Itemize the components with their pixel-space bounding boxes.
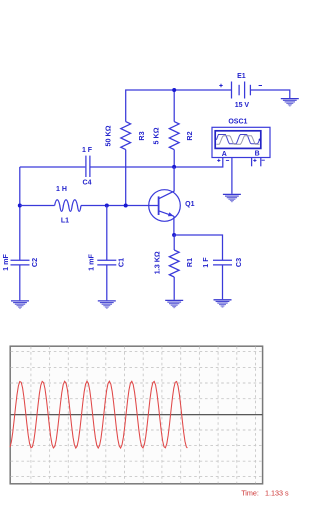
OSC minus sign B (262, 159, 265, 161)
svg-text:1 F: 1 F (201, 257, 210, 268)
graph x axis (11, 414, 263, 416)
svg-text:Q1: Q1 (185, 201, 194, 208)
wire: R2 top lead (173, 90, 175, 122)
svg-text:C3: C3 (234, 258, 243, 267)
svg-text:OSC1: OSC1 (228, 118, 247, 125)
ground (C2) (11, 301, 29, 308)
battery minus sign (259, 85, 262, 87)
OSC1 screen endpoint dot (259, 139, 261, 141)
svg-text:E1: E1 (237, 73, 246, 80)
svg-text:50 KΩ: 50 KΩ (104, 125, 113, 146)
OSC plus sign B (253, 159, 256, 162)
ground (C1) (98, 301, 116, 308)
wire: OSC A- to ground (231, 158, 233, 194)
svg-text:B: B (255, 151, 260, 158)
wire: C3 to ground (222, 265, 224, 299)
svg-text:1 H: 1 H (56, 186, 67, 193)
wire: left rail (19, 167, 21, 260)
wire: C1 branch (106, 206, 108, 261)
junction dot (top rail / R2) (172, 88, 176, 92)
ground (battery) (281, 99, 299, 106)
wire: top rail from R3 top to battery + (126, 90, 232, 122)
inductor L1 (55, 200, 81, 212)
wire: R3 bottom lead crossing to base (125, 150, 127, 206)
wire: C2 to ground (19, 265, 21, 300)
svg-text:1.133 s: 1.133 s (265, 488, 289, 497)
svg-text:15 V: 15 V (235, 102, 250, 109)
svg-text:1 mF: 1 mF (1, 254, 10, 271)
OSC terminal stub B+ (251, 158, 253, 167)
svg-text:C4: C4 (83, 179, 92, 186)
wire: base wire left of L1 (20, 205, 55, 207)
oscilloscope OSC1 (212, 127, 270, 157)
ground (OSC1) (223, 194, 241, 201)
graph panel border (10, 346, 262, 484)
capacitor C4 (86, 156, 90, 177)
wire: base wire right of L1 (81, 205, 158, 207)
svg-text:1.3 KΩ: 1.3 KΩ (153, 251, 162, 274)
waveform trace (red sine) (10, 381, 187, 448)
wire: emitter node to C3 (174, 235, 222, 260)
ground (R1) (165, 300, 183, 307)
wire: mid net left segment (to C4) (20, 166, 86, 168)
svg-text:5 KΩ: 5 KΩ (152, 127, 161, 144)
resistor R3 (121, 122, 131, 150)
resistor R2 (169, 122, 179, 150)
capacitor C2 (11, 260, 30, 265)
OSC minus sign A (226, 159, 229, 161)
wire: collector (173, 167, 175, 192)
wire: emitter (173, 216, 175, 235)
junction dot (C1 tap) (105, 204, 109, 208)
battery E1 (232, 82, 251, 99)
OSC terminal stub B- (260, 158, 262, 167)
OSC plus sign A (217, 159, 220, 162)
battery plus sign (219, 84, 222, 87)
junction dot (collector node) (172, 165, 176, 169)
wire: R2 bottom lead to collector node (173, 150, 175, 167)
svg-text:R2: R2 (185, 131, 194, 140)
svg-text:A: A (222, 151, 227, 158)
svg-text:L1: L1 (61, 217, 69, 224)
svg-text:R3: R3 (137, 131, 146, 140)
OSC1 screen trace A (blue) (216, 135, 259, 144)
ground (C3) (214, 300, 232, 307)
graph vertical grid (31, 347, 256, 484)
wire: battery - to ground (250, 90, 289, 98)
svg-text:R1: R1 (185, 258, 194, 267)
OSC1 screen trace B (gray) (216, 136, 259, 144)
graph horizontal grid (11, 352, 263, 477)
transistor Q1 (149, 190, 181, 222)
svg-text:Time:: Time: (241, 488, 259, 497)
wire: R1 to ground (173, 277, 175, 300)
resistor R1 (173, 235, 175, 250)
wire: mid net right segment (C4 to OSC A+) (91, 158, 223, 167)
svg-text:C2: C2 (30, 258, 39, 267)
junction dot (left rail / base wire) (18, 204, 22, 208)
junction dot (R3 tap) (124, 204, 128, 208)
svg-text:1 mF: 1 mF (87, 254, 96, 271)
svg-text:C1: C1 (116, 258, 125, 267)
capacitor C1 (97, 260, 116, 265)
junction dot (emitter node) (172, 233, 176, 237)
svg-text:1 F: 1 F (82, 147, 93, 154)
capacitor C3 (213, 260, 232, 265)
wire: C1 to ground (106, 265, 108, 300)
